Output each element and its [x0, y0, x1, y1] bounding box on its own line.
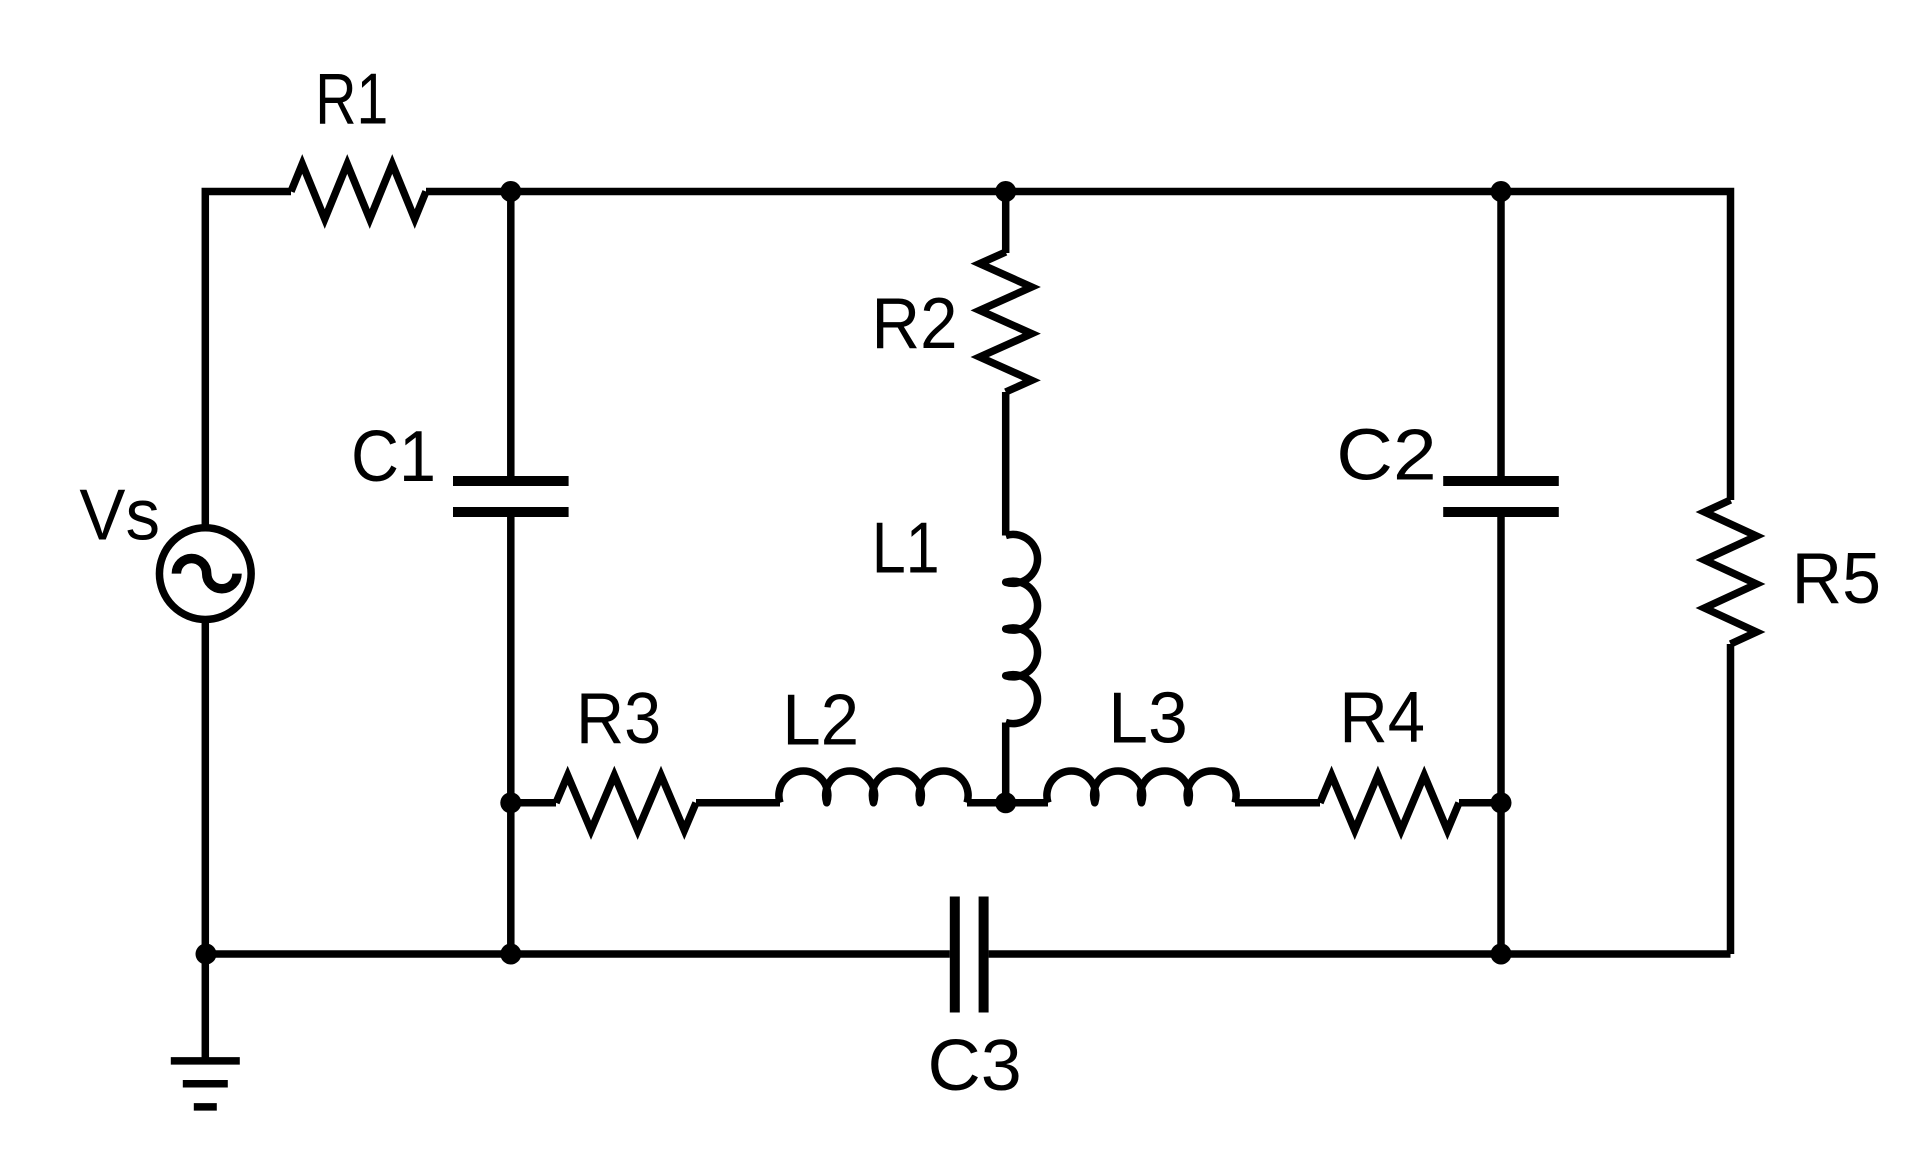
svg-text:L2: L2 — [782, 680, 859, 761]
wire R2 stub — [1002, 192, 1010, 254]
capacitor C2 — [1443, 481, 1559, 512]
capacitor C1 — [453, 481, 569, 512]
node mid right — [1491, 792, 1512, 813]
svg-text:R2: R2 — [872, 283, 958, 364]
svg-text:R4: R4 — [1339, 677, 1425, 758]
svg-text:R3: R3 — [576, 678, 661, 759]
wire C2 branch lower — [1497, 514, 1505, 954]
node top C2 — [1491, 181, 1512, 202]
node mid center — [995, 792, 1016, 813]
svg-text:L3: L3 — [1108, 677, 1188, 758]
node top R2 — [995, 181, 1016, 202]
wire bottom rail right segment — [989, 950, 1731, 958]
wire top rail left segment — [205, 192, 291, 529]
resistor R1 — [291, 164, 426, 219]
node bottom left — [196, 944, 217, 965]
wire Vs bottom to bottom rail — [202, 619, 210, 954]
svg-text:L1: L1 — [872, 508, 940, 589]
resistor R2 — [980, 252, 1032, 392]
wire C2 branch upper — [1497, 192, 1505, 480]
node bottom C2 — [1491, 944, 1512, 965]
wire C1 branch upper — [507, 192, 515, 480]
sine symbol — [176, 558, 237, 588]
resistor R4 — [1320, 775, 1459, 830]
wire top rail right of R1 — [426, 192, 1731, 501]
wire L3 to R4 — [1235, 799, 1320, 807]
wire C1 branch lower — [507, 514, 515, 954]
wire R3 to L2 — [696, 799, 780, 807]
wire R4 to mid right node — [1459, 799, 1501, 807]
svg-text:C2: C2 — [1336, 415, 1436, 496]
inductor L2 — [779, 771, 968, 803]
node top C1 — [500, 181, 521, 202]
wire L1 to mid node — [1002, 723, 1010, 803]
wire L2 to L3 — [967, 799, 1048, 807]
inductor L1 — [1006, 534, 1038, 723]
inductor L3 — [1047, 771, 1236, 803]
svg-text:Vs: Vs — [79, 475, 160, 556]
wire bottom rail left segment — [205, 950, 950, 958]
node bottom C1 — [500, 944, 521, 965]
svg-text:C1: C1 — [351, 416, 436, 497]
resistor R3 — [556, 775, 696, 830]
resistor R5 — [1705, 500, 1757, 644]
wire R2 to L1 — [1002, 392, 1010, 536]
wire R5 to bottom right corner — [1727, 644, 1735, 954]
svg-text:C3: C3 — [928, 1025, 1022, 1106]
svg-text:R1: R1 — [315, 59, 388, 140]
node mid left — [500, 792, 521, 813]
capacitor C3 — [955, 897, 984, 1013]
svg-text:R5: R5 — [1792, 538, 1881, 619]
voltage source Vs — [159, 528, 251, 620]
wire mid branch left — [511, 799, 556, 807]
ground — [202, 954, 210, 1061]
